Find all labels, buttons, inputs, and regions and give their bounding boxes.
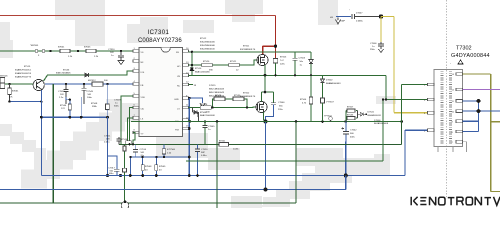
svg-text:D7502: D7502 <box>326 80 333 82</box>
node blue rail y175.5 at x345.8 <box>344 174 348 178</box>
svg-text:100n: 100n <box>109 173 115 175</box>
svg-text:8T521: 8T521 <box>230 61 237 63</box>
IC pin 12 <box>177 82 189 88</box>
wire: green top rail right of IC <box>189 51 312 53</box>
capacitor C7511 <box>104 136 122 145</box>
node y157 resistors <box>141 156 157 158</box>
transformer T7302 body <box>434 70 463 147</box>
diode D7541 <box>358 111 382 119</box>
svg-text:8T544: 8T544 <box>60 105 67 107</box>
svg-text:B1ABCF0000C1: B1ABCF0000C1 <box>15 69 32 72</box>
wire: pin7 drop <box>128 118 134 145</box>
ground arrow top right <box>336 18 341 25</box>
IC pin 1 <box>133 48 144 54</box>
svg-text:14.5k: 14.5k <box>233 149 239 151</box>
wire stubs to blue rail y117 <box>69 97 82 117</box>
capacitor C7310 <box>108 49 124 61</box>
wire: green drop x383.2 from pin3 wire <box>382 98 384 161</box>
transformer pin 2 <box>424 129 434 133</box>
svg-text:VDD: VDD <box>141 97 146 99</box>
wire: pin7 stub <box>438 142 467 152</box>
svg-text:B0AAR000063: B0AAR000063 <box>326 82 341 85</box>
resistor 4B7512 in blue rail <box>88 80 108 86</box>
wire: blue rail y175.5 <box>41 130 405 175</box>
resistor 8T508 390k <box>91 84 109 117</box>
node midpoint <box>264 91 267 94</box>
node: red junction <box>274 45 277 48</box>
svg-text:C7506: C7506 <box>370 43 377 45</box>
transformer pin 9 <box>452 120 463 124</box>
capacitor C7519 labels <box>114 100 121 108</box>
node emitter net <box>8 100 42 102</box>
wire: green vertical x217 <box>216 122 218 209</box>
wire: green bottom rail y203 <box>0 122 296 204</box>
svg-text:C7514: C7514 <box>140 149 147 151</box>
transformer pin 12 <box>452 88 463 92</box>
capacitor C7503 <box>293 52 306 76</box>
svg-text:8T504: 8T504 <box>300 99 307 101</box>
svg-text:8T512: 8T512 <box>200 38 207 40</box>
capacitor C7545b on gate <box>203 120 216 144</box>
wire: pin13 gate wire upper <box>189 60 258 65</box>
svg-text:C008AYY02736: C008AYY02736 <box>138 38 182 44</box>
svg-text:B7508: B7508 <box>145 166 152 168</box>
label D7506 <box>374 120 389 125</box>
svg-text:8T502: 8T502 <box>243 93 250 95</box>
wire: blue vertical x265.5 <box>265 122 267 191</box>
capacitor C7506 <box>370 42 384 53</box>
IC pin 13 <box>177 62 189 68</box>
svg-text:B0UCM000043: B0UCM000043 <box>209 92 225 94</box>
svg-text:LO: LO <box>177 108 180 110</box>
resistor 8T529 <box>214 95 225 101</box>
svg-text:G4DYA000844: G4DYA000844 <box>451 53 490 59</box>
svg-text:8T501: 8T501 <box>243 46 250 48</box>
wire: green pin1 feed <box>402 85 428 122</box>
transformer pin 11 <box>452 100 463 104</box>
capacitor C7545 <box>82 84 94 104</box>
svg-text:8T503: 8T503 <box>280 57 287 59</box>
wire: half-bridge midpoint net <box>262 75 274 101</box>
svg-text:CA: CA <box>141 107 145 110</box>
wire: blue drop x345.8 <box>345 142 347 190</box>
wire: blue emitter drop <box>40 90 42 176</box>
ground arrow GND pin <box>200 103 205 107</box>
wire: M2 source to node <box>264 112 266 121</box>
part list 8T512 <box>200 38 215 51</box>
svg-text:C7542: C7542 <box>350 130 357 132</box>
resistor B7505 2.2k <box>84 47 99 59</box>
svg-text:16V: 16V <box>106 139 110 141</box>
nodes blue tie <box>477 99 481 113</box>
svg-text:4/T7500: 4/T7500 <box>167 149 176 151</box>
wire: yellow to transformer pin4 <box>381 17 428 113</box>
warning triangle <box>450 60 463 66</box>
IC pin 15 <box>175 126 189 132</box>
wire: blue stub top right <box>330 17 351 20</box>
svg-text:B1ABCF000Y73: B1ABCF000Y73 <box>15 76 32 79</box>
svg-text:B1CBRR0017S: B1CBRR0017S <box>240 96 256 98</box>
IC pin 4 <box>133 81 144 87</box>
wire: red drop to MOSFET drain <box>263 16 276 59</box>
connector circle bottom <box>121 201 129 210</box>
transformer pin 3 <box>424 98 434 102</box>
snubber 8T503 <box>273 57 287 76</box>
resistor 8T545r <box>346 111 358 120</box>
resistor B7508 43 <box>141 157 152 176</box>
svg-text:C7519: C7519 <box>114 100 121 102</box>
IC U IC7301 body <box>139 48 183 137</box>
wire: green rail to pin3 <box>386 75 428 99</box>
resistor 8T507 <box>346 107 355 122</box>
diode 8T514 <box>121 139 131 144</box>
wire: output rail y121.5 <box>131 121 402 123</box>
transformer winding left <box>440 72 443 146</box>
svg-text:B0UCM000043: B0UCM000043 <box>209 89 225 91</box>
wire: blue vertical x189 <box>188 98 190 175</box>
node y157 <box>163 156 191 159</box>
wire: blue drop x107.5 with capacitor C7317 <box>108 117 120 175</box>
node GND pin <box>188 97 191 100</box>
svg-text:D7515: D7515 <box>209 85 216 87</box>
test point TP7501 <box>324 116 332 122</box>
svg-text:*4B7501: *4B7501 <box>30 45 39 47</box>
IC pin 7 <box>133 115 144 121</box>
svg-text:*: * <box>349 10 350 12</box>
diode D7510 <box>190 68 210 74</box>
transistor 8T515 labels <box>15 66 32 79</box>
label 8T501 <box>240 46 256 52</box>
label T7302 <box>451 46 490 60</box>
resistor 4T7500 <box>162 144 176 157</box>
svg-text:0.47u: 0.47u <box>104 142 110 144</box>
wire: C7546 blue to node <box>266 105 274 122</box>
transformer pin 4 <box>424 111 434 115</box>
nodes blue rail y117 <box>40 116 109 119</box>
node rail y144.3 <box>128 143 134 145</box>
svg-text:HO: HO <box>177 66 181 68</box>
svg-text:8T528: 8T528 <box>201 104 208 106</box>
resistor 8T520 390 <box>202 61 214 72</box>
svg-text:C7513: C7513 <box>58 91 65 93</box>
wire: pin11 gate wire lower <box>189 106 257 109</box>
svg-text:8T508: 8T508 <box>91 103 98 105</box>
nodes on blue rail y175.5 left <box>106 174 122 177</box>
transistor VT7307 <box>321 98 335 122</box>
resistor 8T561 14.5k <box>219 141 239 151</box>
svg-text:8T510: 8T510 <box>195 68 202 70</box>
svg-text:B1UZM000045: B1UZM000045 <box>200 42 215 44</box>
svg-text:C7545: C7545 <box>87 91 94 93</box>
svg-text:0.068u: 0.068u <box>356 21 363 23</box>
svg-text:C7503: C7503 <box>299 58 306 60</box>
node blue bottom rail <box>264 188 268 192</box>
wire: yellow down to C7506 <box>380 17 382 43</box>
wire: purple pin12 out <box>463 89 500 91</box>
svg-text:C7545: C7545 <box>208 126 215 128</box>
capacitor C7542 <box>342 122 358 142</box>
node on rail <box>77 50 79 52</box>
transformer core dashed <box>446 70 448 146</box>
svg-text:GND: GND <box>174 99 179 101</box>
resistor 8T544 <box>60 104 71 110</box>
IC pin 10 <box>175 117 189 123</box>
svg-text:B7545: B7545 <box>159 166 166 168</box>
svg-text:B1UZM000100: B1UZM000100 <box>200 49 215 51</box>
svg-text:B0HM000031: B0HM000031 <box>368 115 382 117</box>
resistor B7501 2.2k <box>58 47 73 59</box>
svg-text:IC7301: IC7301 <box>148 30 170 36</box>
svg-text:8T545: 8T545 <box>347 115 354 117</box>
IC pin 9 GND <box>174 95 189 101</box>
wire: cap C7519b left end <box>123 144 132 202</box>
capacitor C7520 <box>195 144 208 175</box>
wire: loop riser x191.9 <box>191 52 193 76</box>
wire: dashed separator <box>446 0 448 197</box>
wire: sub row <box>66 97 70 100</box>
svg-text:B1CBRR0017S: B1CBRR0017S <box>240 49 256 51</box>
svg-text:B7061: B7061 <box>12 91 19 93</box>
IC pin 8 <box>133 130 144 136</box>
IC pin 16 <box>176 48 189 54</box>
node loop riser <box>191 51 193 67</box>
svg-text:8T520: 8T520 <box>203 61 210 63</box>
wire: blue feedback rail y84 <box>45 83 133 85</box>
wire: emitter net <box>9 101 41 103</box>
wire: green rail y144.3 <box>119 122 402 145</box>
node pin3 feed <box>385 98 387 100</box>
label 8T502 <box>240 93 256 99</box>
wire: lower loop <box>213 99 248 108</box>
wire: bootstrap rail y75.3 <box>189 74 387 76</box>
svg-text:8T514: 8T514 <box>121 139 128 141</box>
resistor 8T504 riser x311 <box>300 75 313 121</box>
transformer winding right <box>449 72 452 146</box>
part list D7515 <box>209 85 225 98</box>
wire: green rail y161.2 <box>186 100 383 162</box>
svg-text:C7310: C7310 <box>108 49 115 51</box>
IC title IC7301 <box>138 30 182 44</box>
nodes blue rail y175.5 <box>141 174 199 177</box>
resistor 8T521 22 <box>229 61 240 72</box>
node: base divider <box>8 83 10 85</box>
wire: pin9 GND blue <box>189 98 203 103</box>
svg-text:0.56u: 0.56u <box>201 155 207 157</box>
svg-text:D7547: D7547 <box>356 13 363 15</box>
resistor 8T530 <box>233 95 244 101</box>
svg-text:8T507: 8T507 <box>347 107 354 109</box>
svg-text:B0UCM000156: B0UCM000156 <box>209 96 225 98</box>
node half-bridge out <box>264 120 268 124</box>
transformer pin 14 <box>452 73 463 77</box>
svg-text:56P: 56P <box>201 152 205 154</box>
svg-text:B0JAD000008: B0JAD000008 <box>374 122 389 125</box>
svg-text:B0ACD000008: B0ACD000008 <box>200 114 215 117</box>
svg-text:8T561: 8T561 <box>219 141 226 143</box>
svg-text:8T515: 8T515 <box>24 66 31 68</box>
diode D7505 <box>309 52 313 76</box>
node P08 <box>188 127 191 130</box>
svg-text:16V: 16V <box>110 52 114 54</box>
node blue rail <box>65 83 109 85</box>
svg-text:C7520: C7520 <box>201 149 208 151</box>
capacitor C7513 <box>58 84 69 104</box>
wire: olive pin14 out <box>463 74 500 192</box>
diode D7502 on riser x322.5 <box>321 75 342 98</box>
IC pin 2 <box>133 58 144 64</box>
wire: blue pin11 tie <box>463 101 500 132</box>
label D7547 <box>349 10 363 15</box>
svg-text:C7317: C7317 <box>108 168 115 170</box>
node on rail <box>49 50 51 52</box>
wire: blue pin2 feed <box>405 129 428 131</box>
wire: blue bottom rail y189.5 <box>0 176 346 190</box>
wire: blue link y157 <box>130 156 189 158</box>
node on rail at C7310 <box>120 50 122 52</box>
svg-text:16V: 16V <box>60 94 64 96</box>
svg-text:D7506: D7506 <box>374 120 381 122</box>
diode 8T50B <box>192 108 215 122</box>
svg-text:NC: NC <box>177 85 181 87</box>
svg-text:4B7512: 4B7512 <box>88 80 96 82</box>
nodes rail y75.3 <box>264 74 313 77</box>
transistor Q 8T515 <box>33 79 44 90</box>
WATERMARKS <box>0 0 396 208</box>
svg-text:VT7307: VT7307 <box>326 102 334 104</box>
IC pin 6 <box>133 105 144 111</box>
transformer pin 8 <box>452 130 463 134</box>
diode 8T046 on rail <box>56 70 89 77</box>
connector J left edge <box>0 76 8 89</box>
svg-text:8T046: 8T046 <box>63 70 70 72</box>
svg-text:B7501: B7501 <box>58 47 65 49</box>
svg-text:B7505: B7505 <box>84 47 91 49</box>
wire: pin6 drop <box>130 108 134 145</box>
transformer pin 1 <box>424 83 434 87</box>
wire: red mains rail <box>0 15 276 17</box>
svg-text:D7541: D7541 <box>368 112 375 114</box>
svg-text:940P: 940P <box>340 21 346 23</box>
wire: collector to green rail <box>44 71 134 81</box>
svg-text:B1ABCF0000Y5: B1ABCF0000Y5 <box>15 72 32 75</box>
wire: link to yellow node <box>355 16 381 18</box>
wire: pin8 drop <box>133 133 135 145</box>
svg-text:TvT: TvT <box>280 60 284 62</box>
wire: pin12 stub <box>189 85 197 88</box>
svg-text:100n: 100n <box>87 97 93 99</box>
svg-text:B1BC7434B05: B1BC7434B05 <box>56 73 71 75</box>
svg-text:8T50B: 8T50B <box>200 112 207 114</box>
transformer pin 10 <box>452 110 463 114</box>
IC pin 11 <box>177 105 189 111</box>
wire: M1 source drop to rail <box>264 65 267 75</box>
svg-text:C7511: C7511 <box>104 136 111 138</box>
resistor B7061 47k <box>8 84 20 102</box>
svg-text:3B7J06: 3B7J06 <box>0 76 8 78</box>
capacitor C7547 <box>340 14 363 23</box>
capacitor C7546 <box>271 92 285 111</box>
node lower loop <box>211 106 248 108</box>
resistor B7545 43 <box>155 157 166 176</box>
IC pin 14 <box>177 73 189 79</box>
IC pin 3 <box>133 68 145 74</box>
capacitor C7514 <box>133 144 147 157</box>
wire: green vertical standby <box>52 84 54 203</box>
transistor Q 8T502 MOSFET <box>256 101 267 112</box>
fuse B7501 <box>30 45 45 57</box>
IC pin 5 <box>133 93 146 99</box>
svg-text:B1UZM000046: B1UZM000046 <box>200 45 215 47</box>
svg-text:T7302: T7302 <box>456 46 472 52</box>
wire: olive branch y121.8 <box>491 121 500 123</box>
wire: base green from connector <box>5 83 34 85</box>
resistor 8T528 in gate wire <box>200 104 211 114</box>
node pin10 <box>189 120 192 123</box>
ground for C7310 <box>118 61 124 65</box>
nodes rail y121.5 <box>216 120 403 123</box>
svg-text:IOS: IOS <box>141 72 145 74</box>
node yellow <box>379 14 383 18</box>
wire: green supply rail left <box>0 50 133 52</box>
transformer pin 7 <box>452 140 463 144</box>
svg-text:C7546: C7546 <box>278 102 285 104</box>
svg-text:TP7501: TP7501 <box>324 116 332 118</box>
svg-text:*: * <box>450 64 451 66</box>
wire: blue rail y117 <box>41 116 107 118</box>
wire: pin5 VDD feed <box>121 96 133 144</box>
watermark text KENOTRONTV <box>411 197 500 206</box>
transistor Q 8T501 MOSFET <box>257 54 268 65</box>
